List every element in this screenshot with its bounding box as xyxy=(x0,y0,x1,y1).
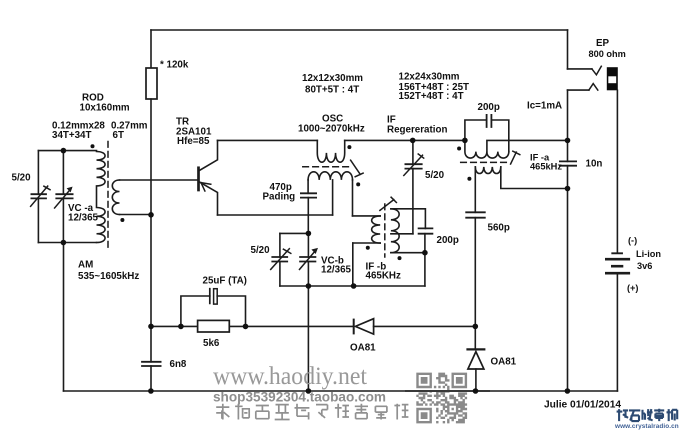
junction node D2 on bottom rail xyxy=(473,388,479,394)
svg-text:Li-ion: Li-ion xyxy=(636,249,661,259)
battery BT1 plate short xyxy=(612,265,622,268)
wire IF-b secondary bottom to C2 node xyxy=(391,252,425,254)
wire node jog left to trimmer CT2 xyxy=(280,232,309,234)
inductor T3 IF-a secondary winding 465kHz xyxy=(475,167,501,174)
wire C1 bottom lead to node xyxy=(307,198,309,234)
wire emitter line to OSC tap xyxy=(218,214,333,216)
trimmer capacitor CT2 5/20 plates xyxy=(272,257,287,262)
earphone EP jack lower spring contact xyxy=(589,84,598,91)
svg-text:80T+5T : 4T: 80T+5T : 4T xyxy=(305,84,359,95)
transistor TR emitter arrow (PNP) xyxy=(201,183,211,191)
battery BT1 Li-ion plate short top xyxy=(612,252,622,254)
wire EP upper contact xyxy=(568,68,592,70)
svg-text:Pading: Pading xyxy=(263,191,296,202)
trimmer capacitor CT1 5/20 plates xyxy=(31,194,46,198)
svg-text:12/365: 12/365 xyxy=(321,265,352,276)
junction node (63.4,150.6) xyxy=(61,148,67,154)
wire C2 bottom lead xyxy=(424,234,426,253)
ferrite rod core dashed line xyxy=(107,142,109,251)
inductor T2 IF-b secondary winding 465KHz xyxy=(391,209,399,253)
junction node (150.9,391) xyxy=(148,388,154,394)
wire bottom ground rail xyxy=(64,390,618,392)
diode D1 OA81 cathode bar xyxy=(353,320,355,334)
junction node (464.9,140.4) xyxy=(462,138,468,144)
watermark chinese scan-qr-for-more text (vector glyphs) xyxy=(216,404,408,420)
wire L2 bottom to left vertical xyxy=(120,214,152,216)
wire IF-b primary bottom down to bus xyxy=(352,243,354,286)
winding phase dot (399.5,258.1) xyxy=(398,256,402,260)
transistor TR collector lead xyxy=(199,140,218,171)
trimmer capacitor CT1 5/20 adjust arrow xyxy=(31,186,50,206)
svg-text:Hfe=85: Hfe=85 xyxy=(177,136,210,147)
wire bottom rail over QR xyxy=(405,390,490,392)
wire base lead from L2 top to TR base xyxy=(120,179,198,181)
junction node (151,326.4) xyxy=(148,324,154,330)
wire regen node down from collector rail xyxy=(412,140,414,164)
winding phase dot (459.1,148.5) xyxy=(457,147,461,151)
capacitor C2 200p plates xyxy=(419,228,433,233)
junction node (475.3,326.4) xyxy=(473,324,479,330)
logo crystalradio chinese name (vector glyphs) xyxy=(617,409,678,421)
junction node (567.5,140.4) xyxy=(565,138,571,144)
svg-text:AM: AM xyxy=(78,259,93,270)
svg-text:OA81: OA81 xyxy=(491,357,517,368)
junction node (567.4,391) xyxy=(565,388,571,394)
svg-text:* 120k: * 120k xyxy=(160,60,189,71)
wire trimmer CT2 top lead xyxy=(279,233,281,257)
junction node (412.7,140.4) xyxy=(410,138,416,144)
capacitor C4 560p plates xyxy=(466,212,485,217)
inductor L1 antenna coil primary 34T+34T xyxy=(97,152,106,243)
inductor T1 OSC secondary winding 80T+5T:4T xyxy=(308,172,352,180)
wire 25uF loop left xyxy=(181,296,210,326)
resistor R1 120k lead top xyxy=(150,30,152,68)
svg-text:Regereration: Regereration xyxy=(387,125,447,136)
diode D2 OA81 cathode bar xyxy=(468,348,485,350)
svg-text:800 ohm: 800 ohm xyxy=(589,49,626,59)
wire CT3 bottom lead to IF-b tap xyxy=(412,169,414,234)
wire left vertical bias branch upper xyxy=(150,99,152,362)
svg-text:12x12x30mm: 12x12x30mm xyxy=(302,73,363,84)
svg-text:10x160mm: 10x160mm xyxy=(80,103,130,114)
svg-text:200p: 200p xyxy=(478,102,500,113)
transistor TR emitter lead xyxy=(199,181,218,215)
wire AGC bus left segment xyxy=(151,325,198,327)
variable capacitor VC-b adjust arrow xyxy=(300,251,316,270)
svg-text:www.haodiy.net: www.haodiy.net xyxy=(213,361,367,390)
winding phase dot (122.4,220) xyxy=(120,218,124,222)
diode D1 OA81 triangle xyxy=(355,319,373,334)
inductor T3 IF-a primary winding xyxy=(465,140,509,158)
svg-text:6T: 6T xyxy=(113,130,124,141)
winding phase dot (349.4,147.1) xyxy=(347,145,351,149)
earphone EP plug insulator notch xyxy=(608,76,616,83)
wire VC-b top lead xyxy=(307,233,309,257)
svg-text:465kHz: 465kHz xyxy=(530,162,562,172)
inductor T2 IF-b primary winding xyxy=(372,216,381,243)
junction node (308.4,391) xyxy=(306,388,312,394)
capacitor C7 25uF (TA) plate right polarized box xyxy=(214,289,218,304)
resistor R2 5k6 body xyxy=(198,320,230,332)
wire C3 200p loop right xyxy=(491,120,508,152)
trimmer capacitor CT2 5/20 adjust arrow xyxy=(271,249,291,270)
wire EP plug to battery positive rail xyxy=(616,90,618,252)
junction node (180.9,326.4) xyxy=(178,324,184,330)
variable capacitor VC-a arrowhead xyxy=(67,187,73,193)
resistor R1 120k body xyxy=(146,68,157,99)
wire OSC secondary to IF-b primary top xyxy=(353,215,381,217)
wire EP lower contact xyxy=(568,89,589,91)
wire detector bus right segment xyxy=(374,325,476,327)
svg-text:560p: 560p xyxy=(488,223,510,234)
wire D2 anode to bottom rail xyxy=(475,369,477,391)
wire OSC secondary tap down to emitter line xyxy=(332,180,334,215)
diode D2 OA81 triangle xyxy=(468,352,484,369)
wire IF-a secondary right end to right rail xyxy=(501,167,568,189)
capacitor C3 200p plates xyxy=(487,115,492,127)
wire IF-b primary bottom xyxy=(353,242,380,244)
svg-text:Ic=1mA: Ic=1mA xyxy=(527,101,562,112)
svg-text:OA81: OA81 xyxy=(350,342,376,353)
wire trimmer CT2 bottom lead xyxy=(279,262,281,287)
battery BT1 plate long bottom xyxy=(606,272,629,275)
winding phase dot (367.8,247.8) xyxy=(366,246,370,250)
variable capacitor VC-b arrowhead xyxy=(311,248,318,254)
svg-text:535~1605kHz: 535~1605kHz xyxy=(78,271,139,282)
svg-text:(-): (-) xyxy=(628,235,637,245)
wire C2 node down to tank bus xyxy=(424,253,426,286)
transformer T2 IF-b core dashed xyxy=(384,204,386,257)
battery BT1 plate long xyxy=(606,258,629,261)
svg-text:34T+34T: 34T+34T xyxy=(52,130,91,141)
svg-text:5/20: 5/20 xyxy=(251,245,271,256)
svg-text:Julie 01/01/2014: Julie 01/01/2014 xyxy=(544,400,621,411)
trimmer capacitor CT3 adjust arrow xyxy=(404,154,424,176)
wire right rail upper (Ic=1mA) xyxy=(567,90,569,161)
svg-text:200p: 200p xyxy=(437,235,459,246)
trimmer capacitor CT3 5/20 IF regeneration plates xyxy=(405,164,421,168)
svg-text:(+): (+) xyxy=(627,283,638,293)
transformer T3 IF-a tuning slug arrow xyxy=(511,151,520,164)
wire IF-a primary tap to supply rail xyxy=(487,140,568,151)
wire antenna loop bottom corner down xyxy=(63,243,65,392)
winding phase dot (358.2,184.4) xyxy=(356,182,360,186)
svg-text:1000~2070kHz: 1000~2070kHz xyxy=(298,123,365,134)
wire IF-a secondary left to C4 560p xyxy=(474,167,476,212)
wire VC-b bottom lead xyxy=(307,262,309,287)
junction node (63.4,242.5) xyxy=(61,240,67,246)
wire antenna loop bottom xyxy=(38,242,96,244)
svg-text:12x24x30mm: 12x24x30mm xyxy=(399,71,460,82)
svg-text:10n: 10n xyxy=(586,159,603,170)
junction node (245.5,326.4) xyxy=(243,324,249,330)
svg-text:5k6: 5k6 xyxy=(203,338,220,349)
svg-text:3v6: 3v6 xyxy=(637,261,652,271)
junction node (424.9,252.7) xyxy=(422,250,428,256)
svg-text:152T+48T : 4T: 152T+48T : 4T xyxy=(399,91,464,102)
svg-text:EP: EP xyxy=(596,38,610,49)
capacitor C6 6n8 plates xyxy=(142,362,161,366)
transformer T2 IF-b tuning slug arrow xyxy=(380,197,397,210)
wire top rail corner down to EP jack xyxy=(567,30,569,69)
winding phase dot (469.4,178.8) xyxy=(467,177,471,181)
QR code watermark xyxy=(416,373,467,424)
junction node (308.4,286) xyxy=(306,283,312,289)
wire collector to OSC primary xyxy=(218,139,318,141)
transformer T1 OSC core dashed xyxy=(303,166,349,168)
svg-text:12/365: 12/365 xyxy=(68,213,99,224)
svg-text:www.crystalradio.cn: www.crystalradio.cn xyxy=(614,423,679,430)
junction node (151,214.8) xyxy=(148,212,154,218)
wire top supply rail xyxy=(151,29,568,31)
transformer T3 IF-a core dashed xyxy=(461,161,507,163)
wire OSC primary to IF-a node xyxy=(345,139,465,141)
junction node (353.6,286) xyxy=(351,283,357,289)
wire antenna loop left side lower xyxy=(37,198,39,242)
capacitor C5 10n plates xyxy=(560,161,576,165)
wire IF-b secondary top to C2 200p xyxy=(391,209,426,229)
svg-text:5/20: 5/20 xyxy=(12,173,32,184)
wire left vertical below 6n8 to bottom rail xyxy=(150,366,152,391)
wire OSC secondary left end to C 470p xyxy=(307,180,309,193)
earphone EP jack upper spring contact xyxy=(592,66,601,75)
wire VC-b node down to bottom rail xyxy=(307,286,309,391)
svg-text:465KHz: 465KHz xyxy=(366,271,401,282)
wire IF-b tank bottom bus xyxy=(280,285,425,287)
variable capacitor VC-b plates xyxy=(300,257,315,262)
svg-text:25uF (TA): 25uF (TA) xyxy=(203,275,247,286)
wire antenna loop left side upper xyxy=(37,151,39,195)
wire right rail lower to bottom rail xyxy=(567,166,569,391)
wire IF-b secondary tap to regeneration cap xyxy=(391,233,413,235)
wire C4 bottom lead down to detector node xyxy=(474,218,476,350)
junction node (567.5,188.5) xyxy=(565,186,571,192)
wire AGC bus middle segment xyxy=(229,325,353,327)
wire OSC secondary right end down xyxy=(352,180,354,216)
transistor TR 2SA101 base bar xyxy=(197,168,200,190)
winding phase dot (92.5,146.2) xyxy=(91,144,95,148)
capacitor C1 470p Pading plates xyxy=(301,193,316,197)
wire VC-a branch vertical lower xyxy=(62,198,64,242)
wire battery negative lead to bottom rail xyxy=(616,274,618,391)
variable capacitor VC-a adjust arrow xyxy=(55,189,71,208)
svg-text:5/20: 5/20 xyxy=(425,170,445,181)
wire antenna loop top xyxy=(38,150,96,152)
svg-text:shop35392304.taobao.com: shop35392304.taobao.com xyxy=(213,390,386,405)
earphone EP plug body xyxy=(607,67,618,90)
wire C3 200p loop left xyxy=(465,120,487,140)
svg-text:6n8: 6n8 xyxy=(170,359,187,370)
capacitor C7 25uF (TA) plate left xyxy=(209,289,211,304)
transformer T1 OSC tuning slug arrow xyxy=(351,160,364,177)
inductor T1 OSC primary winding xyxy=(317,140,344,162)
inductor L2 antenna coil secondary 6T xyxy=(112,180,119,215)
variable capacitor VC-a plates xyxy=(56,194,72,198)
wire 25uF loop right xyxy=(217,296,245,326)
junction node (308.4,233.4) xyxy=(306,231,312,237)
wire VC-a branch vertical upper xyxy=(62,151,64,195)
